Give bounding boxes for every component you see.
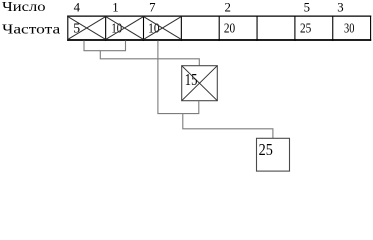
svg-text:1: 1 <box>112 0 118 14</box>
node box 25 <box>257 138 290 171</box>
table bottom border <box>67 39 371 41</box>
svg-text:15: 15 <box>185 70 198 89</box>
svg-text:5: 5 <box>304 0 310 14</box>
svg-text:2: 2 <box>224 0 230 14</box>
svg-text:20: 20 <box>224 21 235 36</box>
svg-text:30: 30 <box>344 21 354 36</box>
svg-text:25: 25 <box>259 140 273 159</box>
cross X cell 3 <box>144 17 182 40</box>
svg-text:Частота: Частота <box>2 22 60 37</box>
cross X cell 1 <box>68 17 106 40</box>
node box 15 <box>182 66 218 101</box>
wire to node 25 <box>183 114 273 138</box>
svg-text:Число: Число <box>2 0 46 14</box>
table top border <box>67 15 371 17</box>
svg-text:10: 10 <box>148 21 160 36</box>
cross X node 15 <box>182 66 218 101</box>
svg-text:3: 3 <box>337 0 343 14</box>
wire bracket under cells 1-2 <box>84 41 126 51</box>
cross X cell 2 <box>106 17 144 40</box>
wire from bracket to node 15 <box>100 51 199 66</box>
svg-text:4: 4 <box>74 0 81 14</box>
wire from cell 3 to node 15 bottom <box>158 41 199 114</box>
svg-text:7: 7 <box>149 0 156 14</box>
svg-text:25: 25 <box>300 21 311 36</box>
table cell dividers <box>68 16 371 41</box>
